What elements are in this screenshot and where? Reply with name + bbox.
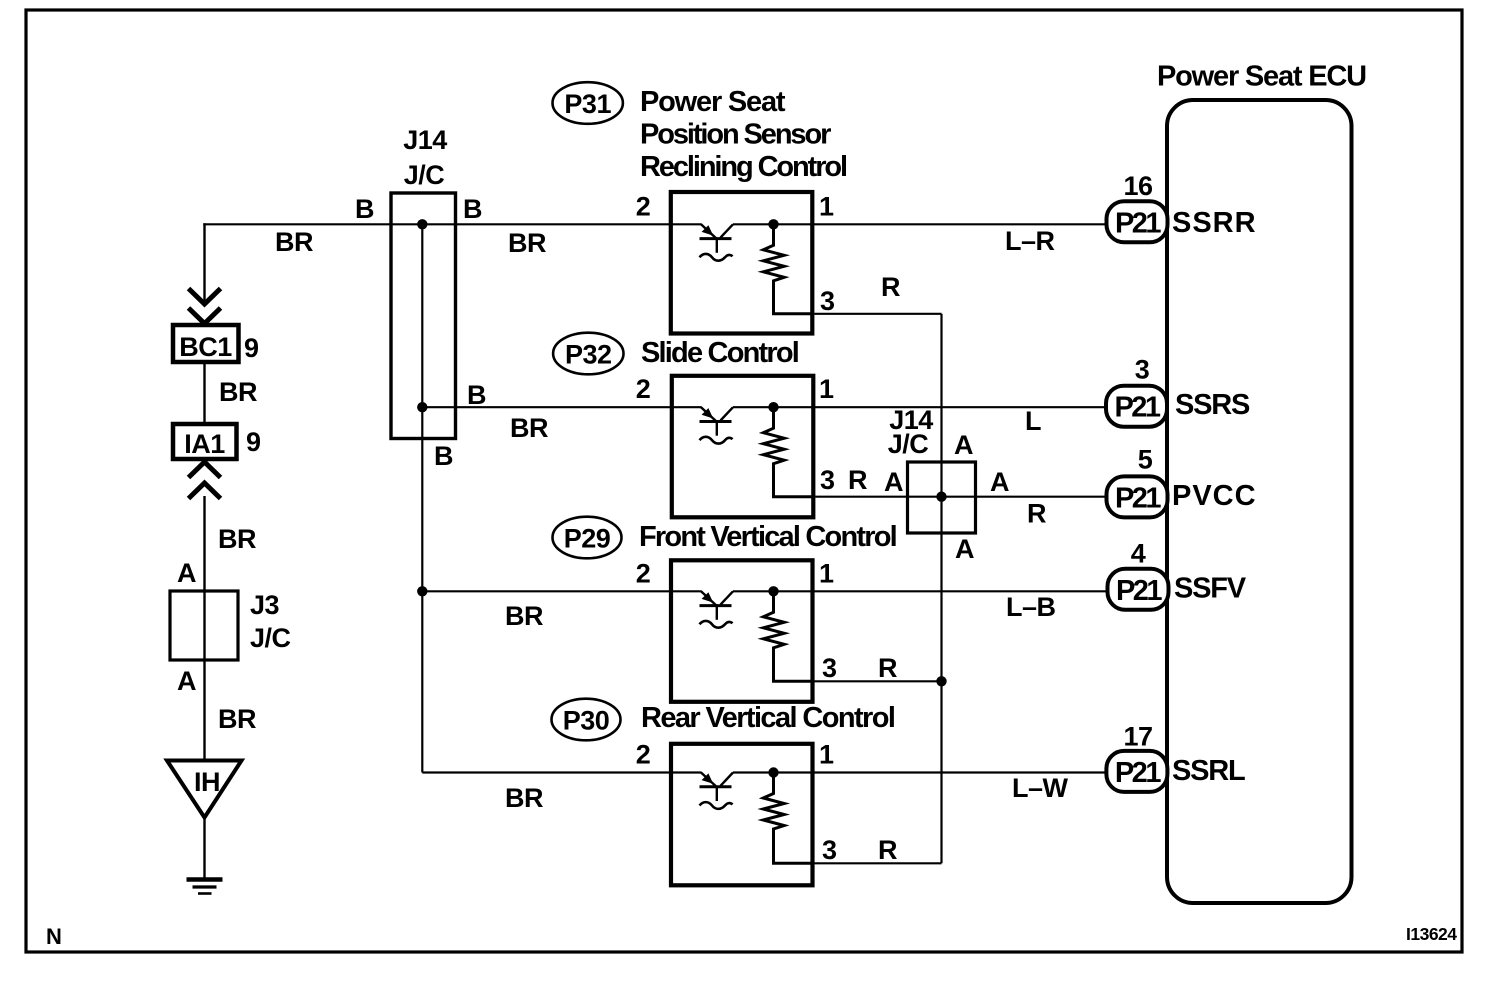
junction dot J14 pin B (top) xyxy=(417,219,427,229)
svg-text:16: 16 xyxy=(1123,171,1153,201)
svg-text:J14: J14 xyxy=(403,125,447,155)
node A label left of J14 xyxy=(884,467,903,497)
svg-text:Power Seat ECU: Power Seat ECU xyxy=(1157,61,1366,93)
svg-text:2: 2 xyxy=(636,191,651,221)
sensor box P29 xyxy=(671,560,813,702)
svg-text:BR: BR xyxy=(219,377,257,407)
junction block J14 J/C (left) xyxy=(391,193,456,439)
svg-text:3: 3 xyxy=(822,653,837,683)
wire P29 pin 1 to SSFV (L-B) xyxy=(813,590,1108,592)
connector oval P21 pin17 SSRL xyxy=(1106,751,1167,792)
pin 17 label xyxy=(1123,722,1152,752)
svg-text:A: A xyxy=(955,534,974,564)
wire J14 to P32 pin 2 (BR) xyxy=(422,406,672,408)
pin 1 label P30 xyxy=(819,740,834,770)
pin 2 label P32 xyxy=(636,374,651,404)
svg-text:Rear Vertical Control: Rear Vertical Control xyxy=(641,702,894,734)
resistor inside P29 xyxy=(763,591,812,681)
node A right of J14 right xyxy=(990,467,1009,497)
wire BC1 to IA1 (BR) xyxy=(203,362,205,424)
bus wire P31 pin3 down to P30 pin3 xyxy=(940,314,942,864)
svg-text:BR: BR xyxy=(505,783,543,813)
node B below J14 xyxy=(434,441,453,471)
wire label L-W xyxy=(1012,773,1069,803)
wire P30 pin 1 to SSRL (L-W) xyxy=(813,771,1107,773)
svg-text:SSRL: SSRL xyxy=(1172,755,1245,787)
wire label BR xyxy=(275,227,313,257)
svg-text:BC1: BC1 xyxy=(179,332,232,362)
title Power Seat xyxy=(640,86,786,118)
svg-text:A: A xyxy=(990,467,1009,497)
junction block J3 J/C xyxy=(170,591,238,660)
wire label BR xyxy=(218,524,256,554)
pin 9 label at IA1 xyxy=(246,427,261,457)
pin 4 label xyxy=(1131,539,1146,569)
wire pin2 into P31 xyxy=(671,223,702,225)
svg-text:BR: BR xyxy=(508,228,546,258)
signal SSRR xyxy=(1172,207,1257,239)
node A below J3 xyxy=(177,666,196,696)
svg-text:1: 1 xyxy=(819,374,834,404)
svg-text:R: R xyxy=(881,272,900,302)
wire label BR right of J14 xyxy=(508,228,546,258)
svg-text:R: R xyxy=(878,835,897,865)
wire pin2 into P32 xyxy=(672,406,702,408)
wire hall output to pin 1 P32 xyxy=(733,406,814,408)
wire P32 pin 3 through J14 J/C to PVCC (R) xyxy=(815,496,1106,498)
wire pin2 into P30 xyxy=(671,771,702,773)
title Position Sensor xyxy=(640,119,831,151)
pin 1 label P31 xyxy=(819,191,834,221)
svg-text:P21: P21 xyxy=(1114,392,1160,424)
svg-text:B: B xyxy=(434,441,453,471)
svg-text:L–B: L–B xyxy=(1006,592,1056,622)
wire J14 to P29 pin 2 (BR) xyxy=(422,590,671,592)
svg-text:2: 2 xyxy=(636,740,651,770)
wire hall output to pin 1 P29 xyxy=(733,590,813,592)
svg-text:J/C: J/C xyxy=(250,623,291,653)
connector oval P21 pin5 PVCC xyxy=(1107,476,1168,517)
resistor inside P30 xyxy=(763,773,812,864)
wire label BR xyxy=(510,413,548,443)
pin 1 label P29 xyxy=(819,558,834,588)
title Front Vertical Control xyxy=(639,521,896,553)
wire through J3 xyxy=(203,591,205,660)
svg-text:R: R xyxy=(848,465,867,495)
svg-text:I13624: I13624 xyxy=(1406,924,1457,944)
wire IH to ground xyxy=(203,817,205,879)
wire label L-R xyxy=(1005,226,1055,256)
svg-text:1: 1 xyxy=(819,558,834,588)
connector arrow into BC1 (double chevron) xyxy=(189,289,221,324)
svg-text:BR: BR xyxy=(218,704,256,734)
wire P31 pin3 to node (R) xyxy=(814,313,941,315)
ECU title Power Seat ECU xyxy=(1157,61,1366,93)
junction dot resistor top P32 xyxy=(768,402,778,412)
junction dot resistor top P30 xyxy=(768,767,778,777)
note N xyxy=(46,924,61,949)
connector oval P21 pin16 SSRR xyxy=(1107,201,1168,242)
wire label L-B xyxy=(1006,592,1056,622)
svg-text:9: 9 xyxy=(246,427,261,457)
junction block J14 J/C (right) xyxy=(908,462,976,533)
svg-text:J3: J3 xyxy=(250,590,280,620)
wire label BR xyxy=(219,377,257,407)
sensor box P31 xyxy=(671,192,813,334)
svg-text:L–R: L–R xyxy=(1005,226,1055,256)
svg-text:SSFV: SSFV xyxy=(1174,573,1247,605)
wire label R xyxy=(1027,499,1046,529)
pin 16 label xyxy=(1123,171,1153,201)
svg-text:2: 2 xyxy=(636,374,651,404)
label J14 xyxy=(403,125,447,155)
hall sensor element P29 xyxy=(700,591,734,627)
svg-text:SSRS: SSRS xyxy=(1175,389,1250,421)
hall sensor element P32 xyxy=(700,407,734,443)
resistor inside P32 xyxy=(763,407,813,497)
svg-text:A: A xyxy=(954,430,973,460)
junction dot resistor top P31 xyxy=(768,219,778,229)
svg-text:P21: P21 xyxy=(1115,207,1161,239)
resistor inside P31 xyxy=(763,224,812,313)
connector arrow into IA1 (double chevron up) xyxy=(189,462,221,499)
node B right of J14 (middle) xyxy=(467,380,486,410)
ground symbol xyxy=(187,880,223,894)
signal SSRL xyxy=(1172,755,1245,787)
svg-text:IH: IH xyxy=(194,767,220,797)
svg-text:5: 5 xyxy=(1138,445,1153,475)
figure number I13624 xyxy=(1406,924,1457,944)
svg-text:1: 1 xyxy=(819,191,834,221)
wire hall output to pin 1 P30 xyxy=(733,771,813,773)
ECU box Power Seat ECU xyxy=(1167,100,1352,903)
svg-text:A: A xyxy=(177,666,196,696)
ground connector IH (triangle) xyxy=(167,761,242,818)
node B right of J14 (top) xyxy=(463,194,482,224)
wire from J14 J/C to BC1 (BR) xyxy=(203,223,205,302)
hall sensor element P31 xyxy=(700,224,734,260)
label J14 xyxy=(889,405,933,435)
wire label BR xyxy=(505,783,543,813)
svg-text:P30: P30 xyxy=(563,706,610,736)
svg-text:Slide Control: Slide Control xyxy=(641,337,798,369)
wire node B to J14 J/C (BR) horizontal xyxy=(203,223,671,225)
pin 3 label P30 xyxy=(822,835,837,865)
connector oval P21 pin3 SSRS xyxy=(1106,386,1167,427)
wire label R xyxy=(878,653,897,683)
node A below J14 right xyxy=(955,534,974,564)
svg-text:P29: P29 xyxy=(564,524,611,554)
label J/C xyxy=(404,160,445,190)
svg-text:IA1: IA1 xyxy=(184,429,225,459)
svg-text:N: N xyxy=(46,924,61,949)
wire label R xyxy=(881,272,900,302)
pin 3 label P29 xyxy=(822,653,837,683)
svg-text:A: A xyxy=(177,558,196,588)
pin 5 label xyxy=(1138,445,1153,475)
svg-text:L: L xyxy=(1025,406,1041,436)
connector oval P31 xyxy=(553,82,623,124)
svg-text:P21: P21 xyxy=(1116,575,1162,607)
svg-text:1: 1 xyxy=(819,740,834,770)
pin 3 label P31 xyxy=(820,286,835,316)
svg-text:PVCC: PVCC xyxy=(1172,480,1257,512)
svg-text:P21: P21 xyxy=(1115,482,1161,514)
svg-text:B: B xyxy=(467,380,486,410)
svg-text:B: B xyxy=(463,194,482,224)
svg-text:J/C: J/C xyxy=(888,429,929,459)
pin 2 label P29 xyxy=(636,558,651,588)
wire label BR xyxy=(505,601,543,631)
pin 1 label P32 xyxy=(819,374,834,404)
wire label R xyxy=(848,465,867,495)
svg-text:Front Vertical Control: Front Vertical Control xyxy=(639,521,896,553)
hall sensor element P30 xyxy=(700,773,734,809)
svg-text:P21: P21 xyxy=(1115,757,1161,789)
node B left of J14 xyxy=(355,194,374,224)
svg-text:L–W: L–W xyxy=(1012,773,1069,803)
label J/C xyxy=(250,623,291,653)
svg-text:9: 9 xyxy=(244,333,259,363)
wire P32 pin 1 to SSRS (L) xyxy=(813,406,1106,408)
pin 2 label P30 xyxy=(636,740,651,770)
title Reclining Control xyxy=(640,151,846,183)
node A above J14 right xyxy=(954,430,973,460)
pin 3 label P32 xyxy=(820,465,835,495)
svg-text:Reclining Control: Reclining Control xyxy=(640,151,846,183)
sensor box P32 xyxy=(672,376,814,518)
svg-text:Power Seat: Power Seat xyxy=(640,86,786,118)
wire J14 to P30 pin 2 (BR) xyxy=(422,771,671,773)
svg-text:BR: BR xyxy=(218,524,256,554)
svg-text:3: 3 xyxy=(820,286,835,316)
wire P31 pin 1 to SSRR (L-R) xyxy=(812,223,1107,225)
junction dot J14 branch to P29 xyxy=(417,586,427,596)
connector oval P32 xyxy=(553,333,623,375)
svg-text:BR: BR xyxy=(275,227,313,257)
wire label R xyxy=(878,835,897,865)
wire hall output to pin 1 P31 xyxy=(733,223,813,225)
connector oval P29 xyxy=(553,517,622,559)
svg-text:R: R xyxy=(1027,499,1046,529)
pin 2 label P31 xyxy=(636,191,651,221)
label J/C xyxy=(888,429,929,459)
svg-text:B: B xyxy=(355,194,374,224)
pin 9 label at BC1 xyxy=(244,333,259,363)
wire P29 pin 3 to node (R) xyxy=(815,680,942,682)
svg-text:4: 4 xyxy=(1131,539,1146,569)
junction dot J14 right xyxy=(936,492,946,502)
label J3 xyxy=(250,590,280,620)
junction dot P29 pin3 with bus xyxy=(936,676,946,686)
wire P30 pin 3 to node (R) xyxy=(815,862,942,864)
svg-text:A: A xyxy=(884,467,903,497)
junction dot J14 (middle) xyxy=(417,402,427,412)
svg-text:SSRR: SSRR xyxy=(1172,207,1257,239)
connector oval P21 pin4 SSFV xyxy=(1108,569,1169,610)
svg-text:J/C: J/C xyxy=(404,160,445,190)
signal SSRS xyxy=(1175,389,1250,421)
sensor box P30 xyxy=(671,744,813,886)
wire label L xyxy=(1025,406,1041,436)
svg-text:3: 3 xyxy=(820,465,835,495)
wire pin2 into P29 xyxy=(671,590,702,592)
wire label BR xyxy=(218,704,256,734)
signal PVCC xyxy=(1172,480,1257,512)
svg-text:BR: BR xyxy=(510,413,548,443)
title Rear Vertical Control xyxy=(641,702,894,734)
node A above J3 xyxy=(177,558,196,588)
svg-text:R: R xyxy=(878,653,897,683)
connector IA1 xyxy=(173,424,237,459)
pin 3 label xyxy=(1135,355,1150,385)
svg-text:2: 2 xyxy=(636,558,651,588)
bus wire inside J14 J/C xyxy=(421,224,423,772)
wire J3 to IH (BR) xyxy=(203,660,205,760)
connector oval P30 xyxy=(552,699,621,741)
svg-text:17: 17 xyxy=(1123,722,1152,752)
signal SSFV xyxy=(1174,573,1247,605)
svg-text:BR: BR xyxy=(505,601,543,631)
svg-text:P32: P32 xyxy=(565,340,612,370)
svg-text:3: 3 xyxy=(822,835,837,865)
junction dot resistor top P29 xyxy=(768,586,778,596)
connector BC1 xyxy=(173,325,239,362)
wire IA1 to J3 (BR) xyxy=(203,496,205,591)
svg-text:Position Sensor: Position Sensor xyxy=(640,119,831,151)
svg-text:3: 3 xyxy=(1135,355,1150,385)
title Slide Control xyxy=(641,337,798,369)
svg-text:P31: P31 xyxy=(564,89,611,119)
